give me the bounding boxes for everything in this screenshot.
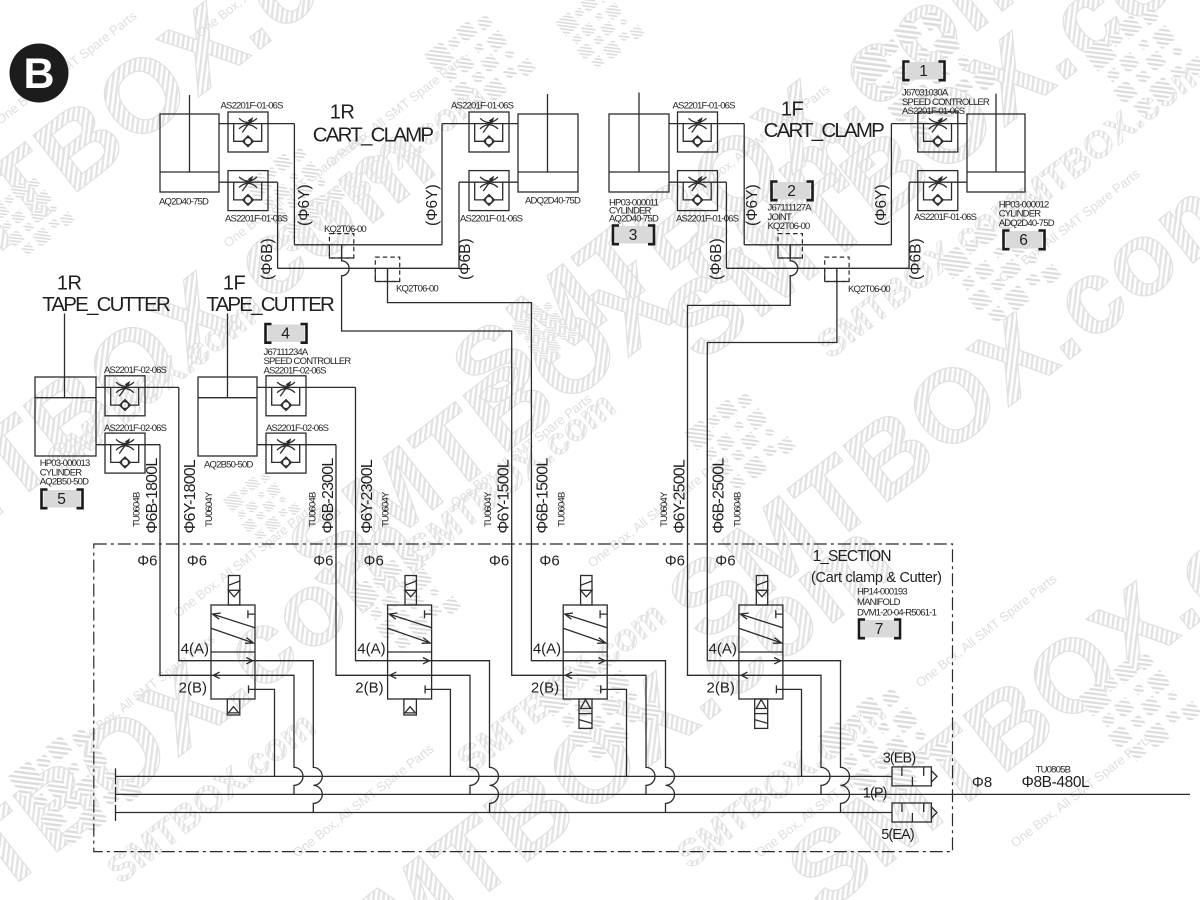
air supply labels [972,764,1090,791]
svg-text:4(A): 4(A) [533,641,561,658]
speed controller 1R-left lower AS2201F-01-06S [228,171,268,211]
label box 2 [772,182,813,201]
svg-text:CART_CLAMP: CART_CLAMP [313,124,434,147]
svg-text:Φ6Y-2500L: Φ6Y-2500L [672,459,689,533]
speed controller 1R-right upper AS2201F-01-06S [469,112,509,152]
node title 1R CART_CLAMP [313,102,434,147]
bus P 1 main air line [116,787,1191,802]
bus EB 3 [116,768,893,784]
wire 1R-TC upper port [96,386,179,388]
svg-text:TU0805B: TU0805B [1036,764,1071,775]
svg-text:TU0604B: TU0604B [556,492,567,527]
speed controller 1F-left lower AS2201F-01-06S [678,171,718,211]
node title 1F CART_CLAMP [764,99,885,143]
valve port labels 4(A) 2(B) [179,641,737,697]
wire valve1 2(B) to bus2 [255,675,303,794]
tube label B-2500 [711,458,744,534]
speed controller 1F-right upper AS2201F-01-06S [918,112,958,152]
wire 1F-right upper port [891,123,967,125]
svg-text:Φ6: Φ6 [364,553,384,570]
svg-text:Φ6B-2500L: Φ6B-2500L [711,458,728,534]
wire valve3 EB port to bus1 [607,689,626,776]
svg-text:Φ6B-1500L: Φ6B-1500L [535,458,552,534]
svg-text:AS2201F-01-06S: AS2201F-01-06S [676,213,739,224]
svg-text:Φ8B-480L: Φ8B-480L [1022,774,1091,791]
svg-text:AS2201F-01-06S: AS2201F-01-06S [460,213,523,224]
valve 4 exhaust [755,699,768,728]
wire 1F Y-left vertical [743,124,745,245]
wire 1F Y header [744,244,891,246]
label block 5 cylinder [40,458,90,508]
svg-text:(Φ6B): (Φ6B) [259,238,276,280]
valve 3 body [563,605,607,699]
bus EA 5 [116,805,893,821]
wire valve3 4(A) to bus3 [607,661,674,813]
valve 2 exhaust [404,699,417,715]
label block 1 speed controller [902,63,990,117]
svg-text:4: 4 [281,326,290,343]
svg-text:MANIFOLD: MANIFOLD [857,597,901,608]
sheet marker B [10,44,69,103]
svg-text:HP14-000193: HP14-000193 [857,587,907,598]
label block 7 manifold [857,587,937,639]
svg-text:2(B): 2(B) [707,679,735,696]
valve 2 body [388,605,432,699]
tee KQ2T06-00 1R-B [375,257,399,281]
svg-text:AS2201F-01-06S: AS2201F-01-06S [221,100,284,111]
svg-text:AS2201F-01-06S: AS2201F-01-06S [902,106,965,117]
tube label Y-1800 [182,459,215,533]
svg-text:2(B): 2(B) [355,679,383,696]
label block 6 cylinder [999,199,1055,249]
label block 3 cylinder [609,197,659,244]
wire TC B-1800 vertical to valve1 2(B) [160,445,211,676]
svg-text:6: 6 [1019,232,1028,249]
svg-text:TU0604Y: TU0604Y [483,491,494,527]
svg-text:1_SECTION: 1_SECTION [813,548,891,565]
manifold title [811,548,942,586]
wire 1F-left upper port [669,123,744,125]
wire valve2 2(B) to bus2 [432,675,479,794]
wire TC Y-2300 vertical to valve2 4(A) [356,387,388,660]
svg-text:AS2201F-01-06S: AS2201F-01-06S [673,100,736,111]
cylinder 1R-left AQ2D40-75D [160,95,219,192]
svg-text:TAPE_CUTTER: TAPE_CUTTER [206,293,334,316]
wire valve2 4(A) to bus3 [432,661,499,813]
wire 1R-right lower port [459,181,518,183]
tube label Y-2500 [659,459,689,533]
wire 1F B header [726,267,909,269]
svg-text:AS2201F-01-06S: AS2201F-01-06S [225,213,288,224]
svg-text:(Φ6Y): (Φ6Y) [744,184,761,226]
wire valve3 2(B) to bus2 [607,675,655,794]
svg-text:(Φ6Y): (Φ6Y) [424,184,441,226]
label block 2 joint [768,183,813,232]
svg-text:1: 1 [919,63,928,80]
svg-text:Φ6: Φ6 [665,553,685,570]
tube label B-1800 [132,458,162,534]
wire 1R B drop to valve3 4(A) [388,268,564,660]
wire 1F Y-right vertical [890,124,892,245]
svg-text:B: B [23,50,54,98]
svg-text:(Φ6B): (Φ6B) [908,238,925,280]
svg-text:KQ2T06-00: KQ2T06-00 [396,284,438,295]
wire valve2 EB port to bus1 [432,689,451,776]
valve 3 exhaust [579,699,592,728]
speed controller 1F-left upper AS2201F-01-06S [678,112,718,152]
tee KQ2T06-00 1F-Y joint [778,234,802,258]
node title 1F TAPE_CUTTER [206,273,334,317]
wire 1R Y-right vertical [441,124,443,245]
svg-text:KQ2T06-00: KQ2T06-00 [324,224,366,235]
wire 1F B drop to valve4 4(A) [707,268,837,660]
label box 5 [42,490,83,509]
wire 1F-TC upper port [257,386,356,388]
wire 1R-TC lower port [96,444,160,446]
wire 1R Y drop to valve3 2(B) [342,245,564,676]
valve 3 solenoid [581,576,592,606]
cylinder 1R tape-cutter HP03-000013 AQ2B50-50D [35,314,96,457]
wire 1R B-left vertical [277,182,279,268]
wire 1R-left lower port [219,181,278,183]
svg-text:CART_CLAMP: CART_CLAMP [764,119,885,142]
wire 1F-TC lower port [257,444,336,446]
svg-text:5(EA): 5(EA) [881,827,914,843]
svg-text:Φ6Y-1800L: Φ6Y-1800L [182,459,199,533]
wire 1F B-right vertical [908,182,910,268]
svg-text:2(B): 2(B) [531,679,559,696]
svg-text:1F: 1F [223,273,246,295]
svg-text:1R: 1R [330,102,355,124]
speed controller 1F-right lower AS2201F-01-06S [918,171,958,211]
wire 1F-left lower port [669,181,726,183]
svg-text:Φ6: Φ6 [313,553,333,570]
svg-text:4(A): 4(A) [357,641,385,658]
label box 4 [266,324,307,343]
svg-text:Φ6: Φ6 [187,553,207,570]
wire valve4 4(A) to bus3 [783,661,850,813]
label block 4 speed controller [264,326,352,377]
cylinder 1R-right ADQ2D40-75D [518,94,578,192]
svg-text:Φ6: Φ6 [539,553,559,570]
label box 1 [904,62,945,81]
manifold section border [94,544,953,852]
svg-text:3: 3 [629,227,638,244]
svg-text:Φ6: Φ6 [137,553,157,570]
cylinder 1F-right ADQ2D40-75D [967,94,1025,192]
svg-text:TU0604Y: TU0604Y [381,491,392,527]
valve 2 solenoid [405,576,416,606]
svg-text:TU0604Y: TU0604Y [204,491,215,527]
svg-text:2(B): 2(B) [179,679,207,696]
svg-text:AQ2B50-50D: AQ2B50-50D [40,477,89,488]
svg-text:AS2201F-01-06S: AS2201F-01-06S [914,212,977,223]
fitting 3(EB) exhaust [892,767,937,786]
svg-text:2: 2 [787,183,796,200]
svg-text:KQ2T06-00: KQ2T06-00 [848,284,890,295]
wire 1R Y header [294,244,442,246]
valve 4 body [739,605,783,699]
svg-text:AS2201F-02-06S: AS2201F-02-06S [104,365,167,376]
port size notes Φ6 [137,553,735,570]
svg-text:AQ2D40-75D: AQ2D40-75D [159,197,209,208]
wire 1F Y drop to valve4 2(B) [688,245,798,676]
svg-text:TU0604Y: TU0604Y [659,491,670,527]
wire valve1 EB port to bus1 [255,689,275,776]
speed controller 1R-left upper AS2201F-01-06S [228,112,268,152]
svg-text:(Φ6B): (Φ6B) [708,238,725,280]
fitting 5(EA) exhaust [892,803,937,822]
svg-text:Φ6Y-1500L: Φ6Y-1500L [496,459,513,533]
svg-text:4(A): 4(A) [709,641,737,658]
tube label Y-2300 [359,459,392,533]
label box 3 [613,226,654,245]
wire valve1 4(A) to bus3 [255,661,322,813]
bus port labels [863,751,916,844]
valve 1 body [211,605,255,699]
svg-text:Φ6Y-2300L: Φ6Y-2300L [359,459,376,533]
svg-text:Φ6: Φ6 [489,553,509,570]
svg-text:AS2201F-01-06S: AS2201F-01-06S [451,100,514,111]
label box 7 [859,620,900,639]
svg-text:TU0604B: TU0604B [732,492,743,527]
valve 1 exhaust [227,699,240,715]
svg-text:1F: 1F [781,99,804,121]
node title 1R TAPE_CUTTER [42,273,170,317]
tee KQ2T06-00 1R-Y [329,234,353,258]
svg-text:AS2201F-02-06S: AS2201F-02-06S [266,423,329,434]
svg-text:AS2201F-02-06S: AS2201F-02-06S [264,365,327,376]
speed controller 1R-TC upper AS2201F-02-06S [105,376,145,416]
wire TC B-2300 vertical to valve2 2(B) [336,445,388,676]
svg-text:TU0604B: TU0604B [308,492,319,527]
cylinder 1F-left AQ2D40-75D [609,93,669,193]
wire 1R B header [278,267,459,269]
svg-text:AS2201F-02-06S: AS2201F-02-06S [104,423,167,434]
label box 6 [1004,231,1045,250]
svg-text:7: 7 [875,621,884,638]
svg-text:(Φ6B): (Φ6B) [457,238,474,280]
wire 1R B-right vertical [458,182,460,268]
svg-text:1(P): 1(P) [863,785,887,801]
wire valve4 2(B) to bus2 [783,675,830,794]
wire 1R-right upper port [442,123,518,125]
wire 1R-left upper port [219,123,294,125]
wire TC Y-1800 vertical to valve1 4(A) [179,387,211,660]
tube label B-1500 [535,458,568,534]
tube label B-2300 [308,458,338,534]
svg-text:(Φ6Y): (Φ6Y) [873,184,890,226]
svg-text:Φ8: Φ8 [972,774,992,791]
svg-text:4(A): 4(A) [181,641,209,658]
svg-text:5: 5 [57,491,66,508]
svg-text:TU0604B: TU0604B [132,492,143,527]
wire 1F-right lower port [909,181,967,183]
svg-text:(Cart clamp & Cutter): (Cart clamp & Cutter) [811,570,942,586]
wire valve4 EB port to bus1 [783,689,802,776]
valve 1 solenoid [228,576,239,606]
svg-text:3(EB): 3(EB) [883,751,916,767]
speed controller 1R-right lower AS2201F-01-06S [469,171,509,211]
svg-text:1R: 1R [57,273,82,295]
svg-text:ADQ2D40-75D: ADQ2D40-75D [525,196,581,207]
svg-text:AQ2D40-75D: AQ2D40-75D [609,213,659,224]
svg-text:TAPE_CUTTER: TAPE_CUTTER [42,293,170,316]
svg-text:Φ6B-2300L: Φ6B-2300L [320,458,337,534]
wire 1F B-left vertical [725,182,727,268]
wire 1R Y-left vertical [293,124,295,245]
speed controller 1F-TC lower AS2201F-02-06S [266,433,306,473]
tee KQ2T06-00 1F-B [825,257,849,281]
valve 4 solenoid [756,576,767,606]
svg-text:KQ2T06-00: KQ2T06-00 [768,221,810,232]
svg-text:Φ6B-1800L: Φ6B-1800L [144,458,161,534]
speed controller 1R-TC lower AS2201F-02-06S [105,433,145,473]
speed controller 1F-TC upper AS2201F-02-06S [266,376,306,416]
svg-text:AQ2B50-50D: AQ2B50-50D [204,460,253,471]
svg-text:Φ6: Φ6 [715,553,735,570]
svg-text:DVM1-20-04-R5061-1: DVM1-20-04-R5061-1 [857,608,937,619]
svg-text:ADQ2D40-75D: ADQ2D40-75D [999,218,1055,229]
cylinder 1F tape-cutter AQ2B50-50D [198,314,257,457]
tube label Y-1500 [483,459,513,533]
svg-text:(Φ6Y): (Φ6Y) [296,184,313,226]
